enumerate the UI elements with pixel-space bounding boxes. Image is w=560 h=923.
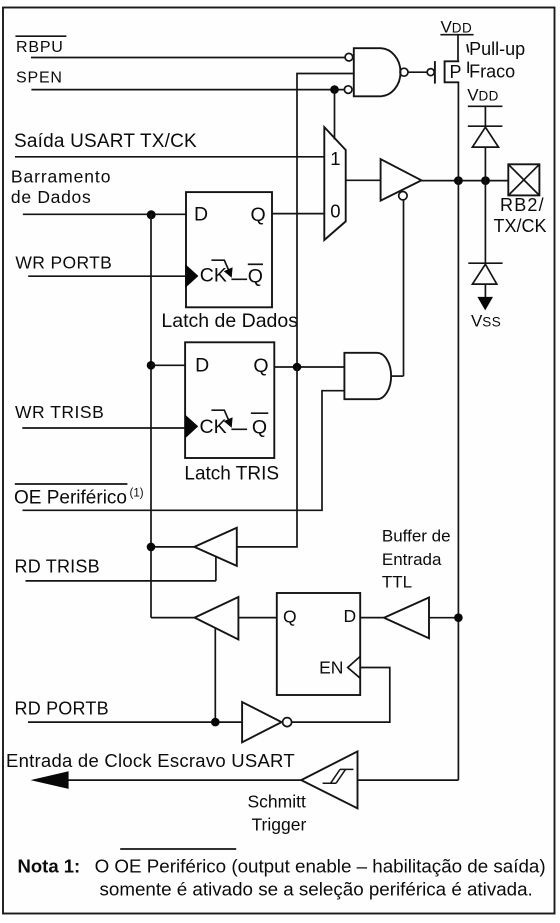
wire WR PORTB to latch CK [28, 275, 186, 277]
diode D1 clamp to VDD [468, 126, 503, 147]
wire barramento to latch D [23, 213, 186, 215]
power VDD top label [440, 17, 473, 36]
wire latch1 Q to mux input 0 [272, 213, 324, 215]
wire MOSFET drain down [457, 82, 459, 180]
wire RD TRISB [26, 580, 216, 582]
label Barramento de Dados [11, 167, 111, 208]
svg-text:CK: CK [200, 264, 227, 286]
transistor Q1 P-MOSFET pull-up [427, 61, 461, 84]
wire buffer output to pin [421, 180, 508, 182]
wire buffer5 output to bus [151, 617, 195, 619]
svg-text:Buffer de: Buffer de [382, 527, 451, 546]
wire buffer5 to latch Q [238, 617, 276, 619]
wire RBPU to NAND input [31, 57, 346, 59]
svg-text:Trigger: Trigger [252, 815, 307, 835]
wire TRIS Q to AND gate [274, 366, 344, 368]
node junction bus read tris [147, 543, 156, 552]
latch U1 Latch de Dados [161, 192, 298, 332]
svg-text:Saída USART TX/CK: Saída USART TX/CK [14, 131, 197, 152]
wire WR TRISB to latch CK [22, 427, 185, 429]
node junction SPEN-select [330, 85, 339, 94]
svg-text:Latch TRIS: Latch TRIS [184, 463, 279, 484]
svg-text:TX/CK: TX/CK [494, 216, 547, 236]
wire saida to mux input 1 [15, 156, 324, 158]
wire RD PORTB [28, 721, 242, 723]
latch U6 input latch [277, 593, 360, 695]
node junction TTL tap [454, 613, 463, 622]
svg-text:O OE Periférico (output enable: O OE Periférico (output enable – habilit… [95, 855, 546, 876]
wire main vertical pin line [457, 181, 459, 781]
wire VDD stem to MOSFET source [457, 35, 459, 62]
wire AND lower input from OE [23, 391, 345, 511]
note Nota 1 [18, 849, 546, 899]
wire AND output up to buffer enable [391, 375, 403, 377]
wire NAND out to gate [408, 71, 428, 73]
label Schmitt Trigger [248, 792, 307, 835]
svg-text:DD: DD [479, 88, 499, 103]
buffer U5 RD PORTB read buffer [195, 597, 239, 640]
svg-text:Schmitt: Schmitt [248, 792, 306, 812]
wire mux out to buffer [346, 179, 381, 181]
buffer U8 Schmitt Trigger [301, 751, 357, 808]
svg-text:WR TRISB: WR TRISB [15, 402, 104, 422]
gate G2 AND [344, 353, 391, 399]
label RBPU with overline [15, 36, 66, 56]
svg-text:D: D [195, 354, 209, 376]
svg-text:SPEN: SPEN [16, 70, 63, 87]
wire buffer5 enable vertical [214, 628, 216, 722]
wire Schmitt input from main vertical [358, 779, 459, 781]
svg-text:P: P [450, 62, 462, 82]
wire TRIS Q down to RD TRISB buffer [237, 367, 297, 547]
svg-text:Q: Q [248, 265, 263, 287]
node junction pin-diode [481, 176, 490, 185]
buffer U7 TTL input buffer [384, 598, 429, 639]
svg-text:D: D [344, 606, 357, 626]
svg-text:Fraco: Fraco [469, 62, 515, 82]
svg-text:RD PORTB: RD PORTB [15, 698, 109, 718]
svg-text:SS: SS [482, 314, 501, 329]
svg-text:Latch de Dados: Latch de Dados [161, 310, 298, 332]
svg-text:de Dados: de Dados [11, 187, 92, 207]
mux MX1 [324, 127, 345, 240]
latch U3 Latch TRIS [184, 342, 279, 484]
svg-text:Q: Q [253, 355, 268, 377]
pin RB2/TX/CK pad [494, 164, 547, 236]
svg-text:RBPU: RBPU [16, 39, 64, 56]
svg-text:Pull-up: Pull-up [469, 39, 525, 59]
ground Vss symbol [471, 297, 501, 330]
label OE Periferico with overline and note ref [14, 484, 144, 508]
wire EN to NOT output [292, 668, 390, 723]
svg-text:somente é ativado se a seleção: somente é ativado se a seleção periféric… [100, 878, 533, 899]
svg-text:CK: CK [200, 416, 227, 438]
wire VDD to diode cathode [484, 106, 486, 126]
node junction pin-main vertical [454, 176, 463, 185]
wire SPEN to NAND input [31, 89, 344, 91]
wire pin node down to lower diode [484, 181, 486, 264]
NAND gate G1 [344, 48, 408, 96]
wire bus to TRIS D [151, 364, 185, 366]
wire mux select vertical [334, 90, 336, 140]
svg-text:OE Periférico: OE Periférico [14, 487, 127, 508]
wire buffer enable vertical [403, 200, 405, 377]
svg-text:(1): (1) [130, 488, 144, 500]
svg-text:V: V [441, 17, 453, 36]
buffer U4 RD TRISB read buffer [194, 528, 237, 566]
wire slave clock out with arrow [31, 771, 302, 789]
wire TTL buffer to main vertical [429, 617, 458, 619]
svg-text:Q: Q [283, 606, 297, 626]
node junction TRIS Q feedback [293, 363, 302, 372]
svg-text:TTL: TTL [382, 573, 412, 592]
label Buffer de Entrada TTL [382, 527, 451, 592]
wire data bus vertical [150, 214, 152, 617]
svg-text:Nota 1:: Nota 1: [18, 855, 81, 876]
gate G3 NOT RD PORTB [242, 702, 292, 742]
svg-text:Entrada: Entrada [382, 550, 442, 569]
wire latch D to TTL buffer [360, 617, 384, 619]
diode D2 clamp to VSS [468, 263, 502, 297]
node junction RD PORTB enable [211, 718, 220, 727]
svg-text:D: D [194, 204, 208, 226]
svg-text:RD TRISB: RD TRISB [15, 557, 100, 577]
svg-text:Q: Q [251, 204, 266, 226]
svg-text:V: V [471, 311, 483, 330]
wire diode to pin node [484, 147, 486, 181]
label Pull-up Fraco with tick marks [467, 39, 525, 82]
tri-state buffer U2 [381, 159, 422, 201]
svg-text:V: V [467, 85, 479, 104]
svg-text:RB2/: RB2/ [500, 195, 545, 215]
node junction TRIS D [147, 361, 156, 370]
svg-text:1: 1 [330, 148, 340, 169]
svg-text:Q: Q [252, 417, 267, 439]
wire NAND middle input from TRIS feedback [297, 74, 354, 368]
svg-text:WR PORTB: WR PORTB [15, 252, 112, 272]
wire RD TRISB enable [215, 557, 217, 581]
svg-text:EN: EN [319, 658, 343, 678]
svg-text:Entrada de Clock Escravo USART: Entrada de Clock Escravo USART [6, 750, 295, 771]
power VDD mid label [467, 85, 502, 106]
svg-text:DD: DD [452, 20, 472, 35]
wire buffer4 output to bus [151, 546, 194, 548]
node junction data bus [147, 210, 156, 219]
svg-text:Barramento: Barramento [11, 167, 111, 187]
svg-text:0: 0 [330, 200, 340, 221]
